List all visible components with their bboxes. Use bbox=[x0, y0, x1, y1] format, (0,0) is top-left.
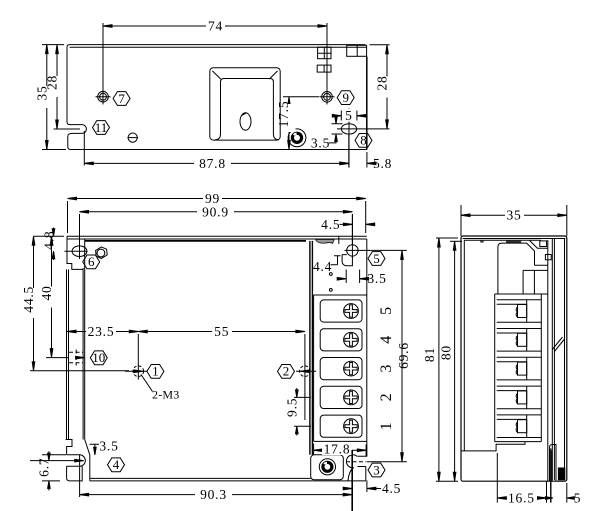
svg-text:1: 1 bbox=[152, 364, 159, 379]
dimension 16.5 bbox=[497, 453, 546, 505]
side view inner chassis box bbox=[498, 240, 548, 294]
svg-text:35: 35 bbox=[506, 208, 521, 223]
bolt head bbox=[96, 247, 108, 259]
TOPVIEW bbox=[35, 19, 394, 172]
main case right edge and corner notch bbox=[348, 239, 367, 481]
dimension 81 bbox=[422, 238, 458, 481]
svg-text:80: 80 bbox=[438, 345, 453, 360]
svg-text:8: 8 bbox=[360, 133, 367, 148]
dimension 40 bbox=[39, 236, 68, 357]
svg-text:28: 28 bbox=[375, 75, 390, 90]
top view connector block bbox=[347, 45, 367, 56]
dimension 44.5 bbox=[21, 236, 129, 371]
hexagon label 2 bbox=[278, 364, 295, 379]
side terminal 1 bbox=[497, 415, 542, 438]
svg-text:40: 40 bbox=[39, 285, 54, 300]
oval hole 6 bbox=[65, 246, 88, 257]
svg-text:87.8: 87.8 bbox=[199, 156, 226, 171]
side view right clip bbox=[552, 337, 564, 352]
svg-text:28: 28 bbox=[45, 75, 60, 90]
dimension 74 bbox=[103, 19, 327, 34]
svg-text:7: 7 bbox=[118, 91, 125, 106]
svg-text:55: 55 bbox=[214, 324, 229, 339]
dimension 4.8 bbox=[41, 228, 56, 261]
svg-text:44.5: 44.5 bbox=[21, 286, 36, 313]
dimension 3.5 oval bbox=[311, 116, 343, 151]
svg-text:5: 5 bbox=[345, 108, 353, 123]
dimension 17.5 bbox=[276, 97, 319, 150]
svg-text:16.5: 16.5 bbox=[508, 490, 535, 505]
grommet bushing bbox=[288, 129, 306, 147]
svg-text:5: 5 bbox=[373, 251, 380, 266]
terminal area inner wall bbox=[310, 241, 313, 455]
dimension 90.3 bbox=[80, 450, 353, 511]
screw head bbox=[127, 133, 138, 142]
svg-text:3.5: 3.5 bbox=[367, 271, 386, 286]
hexagon label 10 bbox=[90, 350, 107, 365]
dimension 87.8 bbox=[84, 131, 349, 171]
main case left foot bbox=[66, 440, 90, 481]
svg-text:17.5: 17.5 bbox=[276, 101, 291, 128]
svg-text:9: 9 bbox=[342, 90, 349, 105]
terminal numbers bbox=[378, 307, 395, 430]
oval hole 8 bbox=[337, 108, 390, 168]
svg-text:5: 5 bbox=[378, 307, 395, 315]
svg-text:3.5: 3.5 bbox=[311, 135, 330, 150]
grommet box bbox=[311, 455, 344, 480]
side view top notch bbox=[481, 240, 483, 242]
hole 10 hidden slot bbox=[69, 350, 85, 366]
svg-text:5: 5 bbox=[574, 490, 582, 505]
dimension 55 bbox=[138, 324, 305, 339]
hole 7 bbox=[96, 23, 111, 104]
terminal window 4 bbox=[320, 329, 362, 351]
dimension 4.5 top bbox=[321, 217, 375, 232]
terminal window 5 bbox=[320, 300, 362, 322]
dimension 9.5 bbox=[284, 388, 311, 436]
dimension 5.8 bbox=[340, 152, 392, 171]
dimension 17.8 bbox=[314, 441, 367, 456]
svg-text:4.5: 4.5 bbox=[321, 217, 340, 232]
dimension 4.5 bottom bbox=[343, 481, 401, 496]
side terminal 5 bbox=[497, 300, 542, 323]
svg-text:5.8: 5.8 bbox=[373, 156, 392, 171]
svg-text:3: 3 bbox=[373, 462, 380, 477]
dimension 35 left bbox=[35, 45, 67, 150]
svg-text:2-M3: 2-M3 bbox=[152, 388, 179, 402]
dimension 35 side bbox=[461, 205, 567, 236]
side terminal 2 bbox=[497, 386, 542, 409]
hole 3 arc bbox=[346, 455, 366, 468]
top view terminal pins group B bbox=[317, 65, 331, 72]
hexagon label 4 bbox=[108, 457, 125, 472]
side view right wall bump top bbox=[540, 241, 551, 260]
dimension 4.4 bbox=[313, 256, 341, 274]
svg-text:74: 74 bbox=[208, 19, 223, 34]
svg-text:69.6: 69.6 bbox=[396, 342, 411, 369]
node hole 2 bbox=[296, 334, 316, 420]
node hole 1 bbox=[125, 334, 148, 380]
svg-text:3.5: 3.5 bbox=[99, 438, 118, 453]
svg-text:4.4: 4.4 bbox=[313, 259, 332, 274]
top view terminal pins group A bbox=[318, 47, 331, 59]
dimension 69.6 bbox=[367, 250, 411, 461]
terminal block outline bbox=[314, 295, 367, 441]
svg-text:81: 81 bbox=[422, 347, 437, 362]
svg-text:17.8: 17.8 bbox=[324, 441, 351, 456]
side terminal 3 bbox=[497, 357, 542, 380]
main case bottom edge bbox=[90, 478, 366, 481]
svg-text:4: 4 bbox=[113, 457, 120, 472]
svg-text:2: 2 bbox=[283, 364, 290, 379]
svg-text:6: 6 bbox=[88, 254, 95, 269]
terminal window 3 bbox=[320, 358, 362, 380]
dimension 3.5 keyhole bbox=[337, 270, 386, 287]
svg-text:9.5: 9.5 bbox=[284, 398, 299, 417]
side terminal 4 bbox=[497, 329, 542, 352]
dimension 28 left bbox=[45, 45, 80, 129]
main case top edge bbox=[67, 236, 367, 241]
svg-text:23.5: 23.5 bbox=[88, 324, 115, 339]
svg-text:10: 10 bbox=[92, 350, 105, 365]
svg-text:11: 11 bbox=[95, 120, 108, 135]
rivet dots bbox=[329, 273, 332, 292]
hexagon label 11 bbox=[93, 120, 110, 135]
hole 9 bbox=[320, 23, 335, 104]
cover tab curve bbox=[316, 240, 335, 244]
svg-text:1: 1 bbox=[378, 422, 395, 430]
side view base bbox=[461, 442, 552, 481]
svg-text:3: 3 bbox=[378, 365, 395, 373]
svg-text:90.9: 90.9 bbox=[202, 204, 229, 219]
side view right wall lines bbox=[548, 239, 555, 481]
dimension 99 bbox=[68, 191, 366, 233]
dimension 23.5 bbox=[67, 324, 138, 339]
keyhole 5 bbox=[339, 214, 407, 266]
svg-text:4: 4 bbox=[378, 336, 395, 344]
SIDEVIEW bbox=[422, 205, 581, 505]
top view core hole bbox=[240, 113, 251, 130]
dimension 3.5 foot bbox=[90, 438, 119, 455]
dimension 90.9 bbox=[80, 204, 353, 259]
hexagon label 9 bbox=[337, 90, 354, 105]
hexagon label 3 bbox=[368, 462, 385, 477]
top view transformer cover bump bbox=[210, 68, 280, 140]
side view top tab bbox=[506, 240, 521, 243]
MAINVIEW bbox=[21, 191, 411, 511]
terminal window 1 bbox=[320, 415, 362, 437]
svg-text:6.7: 6.7 bbox=[36, 458, 51, 477]
dimension 80 bbox=[438, 241, 462, 481]
dimension 5 side bbox=[545, 449, 581, 506]
hexagon label 1 bbox=[147, 364, 164, 379]
side view outline bbox=[461, 236, 567, 481]
side view terminal block body bbox=[495, 294, 542, 442]
dimension 6.7 bbox=[30, 451, 84, 490]
hexagon label 7 bbox=[113, 91, 130, 106]
hexagon label 8 bbox=[355, 133, 372, 148]
svg-text:4.8: 4.8 bbox=[41, 231, 56, 250]
terminal window 2 bbox=[320, 386, 362, 408]
svg-text:4.5: 4.5 bbox=[382, 481, 401, 496]
hexagon label 6 bbox=[83, 254, 100, 269]
side view top inner line bbox=[464, 240, 541, 451]
hexagon label 5 bbox=[368, 251, 385, 266]
side view bottom right bracket bbox=[550, 445, 566, 481]
svg-text:90.3: 90.3 bbox=[200, 487, 227, 502]
main case left profile bbox=[67, 236, 85, 439]
side view terminal recess bbox=[495, 265, 548, 294]
svg-text:2: 2 bbox=[378, 393, 395, 401]
label 2-M3 bbox=[141, 375, 179, 402]
dimension 5 oval bbox=[332, 108, 366, 123]
dimension 28 right bbox=[370, 45, 394, 129]
top view case outline bbox=[67, 45, 367, 150]
